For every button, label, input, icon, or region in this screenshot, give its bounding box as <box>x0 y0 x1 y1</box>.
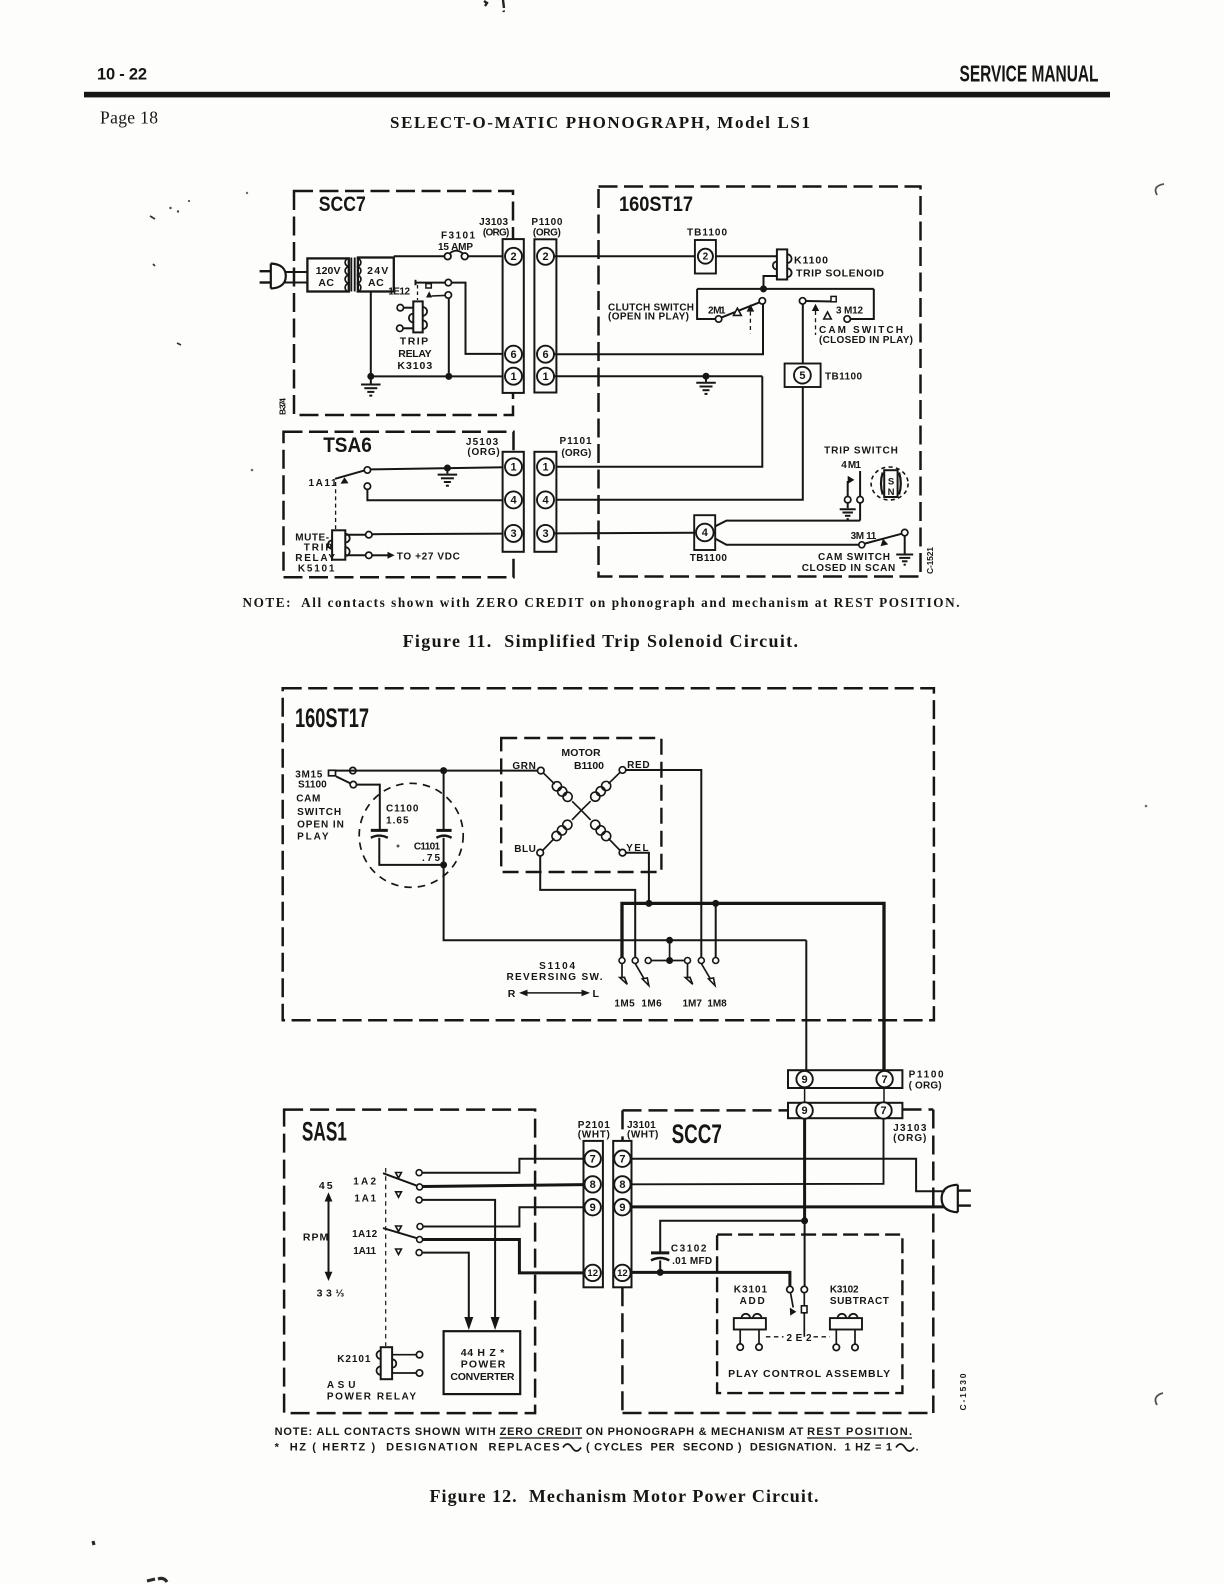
svg-text:POWER: POWER <box>461 1359 506 1371</box>
svg-text:45: 45 <box>319 1180 333 1192</box>
S1104 blade 1M5 <box>621 964 623 978</box>
svg-text:7: 7 <box>590 1153 596 1165</box>
svg-text:TRIP SWITCH: TRIP SWITCH <box>824 446 898 457</box>
wire J3101 pin 12 to 2E2 (thick) <box>631 1272 790 1286</box>
cam switch 3M12 blade <box>799 298 805 304</box>
wire P1100 pin 6 to 2M1 blade <box>554 304 763 354</box>
svg-text:160ST17: 160ST17 <box>295 703 369 733</box>
svg-text:1M7 1M8: 1M7 1M8 <box>683 999 728 1010</box>
J3103 pin 1 <box>505 368 522 385</box>
svg-text:SERVICE MANUAL: SERVICE MANUAL <box>960 61 1099 87</box>
svg-text:2 M1: 2 M1 <box>708 306 726 317</box>
svg-text:NOTE: ALL CONTACTS SHOWN WITH: NOTE: ALL CONTACTS SHOWN WITH <box>275 1426 500 1438</box>
2M1 actuator marks <box>734 308 742 315</box>
svg-text:ON PHONOGRAPH & MECHANISM AT: ON PHONOGRAPH & MECHANISM AT <box>582 1426 807 1438</box>
svg-text:S1100: S1100 <box>298 780 327 791</box>
wire 1A11 upper to J5103 pin 1 <box>371 467 505 469</box>
P2101 pin 9 <box>585 1199 601 1215</box>
svg-text:12: 12 <box>587 1268 598 1279</box>
transformer T1 core <box>350 258 352 292</box>
svg-text:1E12: 1E12 <box>388 287 410 298</box>
transformer T1 secondary winding <box>357 258 361 292</box>
mating stubs <box>804 1087 806 1103</box>
svg-text:S: S <box>888 476 894 487</box>
J3101 pin 7 <box>614 1151 630 1167</box>
wire ground bus to J3103 pin 1 <box>371 375 505 377</box>
svg-text:P1100: P1100 <box>531 217 562 228</box>
P2101 pin 7 <box>585 1151 601 1167</box>
svg-text:REST POSITION.: REST POSITION. <box>807 1426 912 1438</box>
svg-text:7: 7 <box>880 1105 886 1117</box>
ground symbol (TSA6) <box>446 468 448 474</box>
svg-text:TB1100: TB1100 <box>690 553 728 564</box>
connector P1100 (ORG) figure 11 <box>534 239 556 392</box>
svg-text:SCC7: SCC7 <box>672 1119 722 1149</box>
wire 1A1 to power converter (arrow) <box>422 1200 495 1317</box>
wire bus drop to contact 1M8 <box>715 903 717 957</box>
wire 3M15 blade to C1100 <box>357 785 380 830</box>
K2101 contact upper <box>392 1354 416 1356</box>
wire 24V secondary to fuse F3101 <box>394 255 445 257</box>
svg-text:C-1521: C-1521 <box>925 547 935 574</box>
svg-text:1.65: 1.65 <box>386 815 409 826</box>
S1104 blade 1M6 <box>635 964 644 980</box>
P1101 pin 4 <box>537 491 554 508</box>
wire 1A11 lower to J5103 pin 4 <box>367 489 505 500</box>
svg-text:TB1100: TB1100 <box>687 228 727 239</box>
svg-text:24V: 24V <box>367 265 388 277</box>
svg-text:OPEN IN: OPEN IN <box>297 820 344 831</box>
svg-text:( ORG): ( ORG) <box>909 1081 942 1092</box>
J3103h pin 9 <box>796 1102 812 1118</box>
box 160ST17 (figure 12) <box>283 688 934 1020</box>
svg-text:L: L <box>593 988 600 1000</box>
svg-text:8: 8 <box>590 1179 596 1191</box>
svg-text:9: 9 <box>619 1202 625 1214</box>
relay K5101 mute-trip coil <box>332 530 345 559</box>
svg-text:7: 7 <box>882 1074 888 1086</box>
capacitor C1100 1.65 <box>371 829 388 832</box>
terminal block TB1100 terminal 4 <box>694 515 715 550</box>
wire RED to reversing switch contact <box>626 770 702 957</box>
magnet symbol S-N <box>871 467 908 500</box>
svg-text:K1100: K1100 <box>794 255 828 267</box>
svg-text:15 AMP: 15 AMP <box>438 242 473 253</box>
P1100h pin 7 <box>876 1071 892 1087</box>
svg-text:ADD: ADD <box>740 1296 765 1307</box>
connector J3103 (ORG) figure 11 <box>503 239 524 393</box>
J3101 pin 8 <box>614 1176 630 1192</box>
junction dot C1101 bottom <box>440 861 447 868</box>
svg-text:.75: .75 <box>422 853 440 864</box>
svg-text:C3102: C3102 <box>671 1244 707 1255</box>
wire J3101 pin 7 to AC plug upper <box>631 1159 945 1192</box>
svg-text:K3103: K3103 <box>397 360 432 372</box>
svg-text:PLAY CONTROL ASSEMBLY: PLAY CONTROL ASSEMBLY <box>728 1368 890 1380</box>
svg-text:RPM: RPM <box>303 1232 329 1244</box>
motor winding GRN-center <box>543 773 554 784</box>
svg-text:3: 3 <box>542 528 548 540</box>
wire YEL to line bus <box>626 853 649 904</box>
cam switch 3M12 fixed contact <box>844 316 850 322</box>
1E12 actuator dashed link <box>417 285 419 300</box>
relay contact 1E12 <box>415 280 417 285</box>
wire J3101 pin 9 to AC plug lower (thick) <box>631 1205 944 1208</box>
svg-text:B1100: B1100 <box>574 760 604 772</box>
cam switch 3M15 S1100 <box>329 770 336 776</box>
connector P1100 (ORG) horizontal <box>788 1070 902 1088</box>
wire 1E12 to J3103 pin 6 <box>452 283 506 354</box>
svg-text:RELAY: RELAY <box>398 348 431 360</box>
svg-text:NOTE: All contacts shown with: NOTE: All contacts shown with ZERO CREDI… <box>243 595 960 610</box>
svg-text:1: 1 <box>510 371 516 383</box>
P1100 pin 2 <box>537 248 554 265</box>
svg-text:Page 18: Page 18 <box>100 108 158 128</box>
svg-text:P1100: P1100 <box>909 1070 944 1081</box>
svg-text:K3101: K3101 <box>734 1285 768 1296</box>
svg-text:1: 1 <box>510 462 516 474</box>
svg-text:1M5 1M6: 1M5 1M6 <box>614 999 662 1010</box>
transformer T1 primary box 120V AC <box>307 258 348 291</box>
svg-text:5: 5 <box>799 370 805 382</box>
plug prong lower fig12 <box>958 1204 971 1206</box>
44 HZ power converter box <box>444 1331 521 1394</box>
ground symbol (4M1) <box>847 503 849 508</box>
svg-text:4: 4 <box>702 527 709 539</box>
J3101 pin 9 <box>614 1199 630 1215</box>
wire C1100 bottom <box>379 838 440 865</box>
wire P1100 pin 1 ground bus 160ST17 <box>554 375 762 377</box>
svg-text:A S U: A S U <box>327 1380 356 1391</box>
svg-text:4 M1: 4 M1 <box>841 460 861 471</box>
wire 3M15 to motor GRN <box>336 770 538 772</box>
wire P1100 pin 2 to TB1100 terminal 2 <box>554 255 695 257</box>
svg-text:1: 1 <box>542 371 548 383</box>
wire P1101 pin 3 to TB1100 terminal 4 <box>554 532 694 535</box>
P1100 pin 6 <box>537 346 554 363</box>
motor winding RED-center <box>608 772 620 783</box>
svg-text:12: 12 <box>617 1268 628 1279</box>
motor winding BLU-center <box>543 838 555 850</box>
connector J5103 (ORG) <box>503 452 524 552</box>
svg-text:(ORG): (ORG) <box>561 448 591 459</box>
svg-text:CAM: CAM <box>296 794 320 805</box>
svg-text:120V: 120V <box>316 265 341 277</box>
svg-text:SELECT-O-MATIC PHONOGRAPH, Mod: SELECT-O-MATIC PHONOGRAPH, Model LS1 <box>390 113 810 132</box>
svg-text:1A1: 1A1 <box>354 1194 376 1205</box>
wire junction to 2E2 contact <box>804 1221 806 1286</box>
ground symbol (160ST17) <box>705 376 707 382</box>
ground symbol (3M11) <box>896 554 913 556</box>
svg-text:33⅓: 33⅓ <box>317 1288 345 1300</box>
wire fuse to J3103 pin 2 <box>468 255 505 257</box>
AC plug P (120V line) <box>271 264 286 289</box>
svg-text:(ORG): (ORG) <box>483 228 510 239</box>
plug prong lower <box>260 281 271 283</box>
svg-text:(WHT): (WHT) <box>627 1130 658 1141</box>
svg-text:TRIP: TRIP <box>304 542 333 553</box>
J5103 pin 4 <box>505 491 522 508</box>
svg-text:Figure 11. Simplified Trip So: Figure 11. Simplified Trip Solenoid Circ… <box>403 631 798 651</box>
wire clutch/cam switch top bus <box>697 288 874 290</box>
connector P2101 (WHT) <box>584 1141 603 1287</box>
connector J3103 (ORG) horizontal <box>788 1103 902 1118</box>
capacitor C3102 .01 MFD <box>651 1251 669 1254</box>
clutch switch 2M1 fixed contact <box>715 316 721 322</box>
wire capacitor node to reversing switch bus <box>444 865 807 940</box>
svg-text:AC: AC <box>368 277 384 289</box>
junction dot relay-ground bus <box>445 373 452 380</box>
svg-text:(WHT): (WHT) <box>578 1130 610 1141</box>
box SCC7 (figure 12) boundary <box>623 1109 789 1112</box>
svg-text:R: R <box>508 988 516 1000</box>
svg-text:1A11: 1A11 <box>353 1246 376 1257</box>
box SAS1 <box>284 1110 535 1414</box>
box 160ST17 (figure 11) <box>599 187 921 577</box>
svg-text:1A11: 1A11 <box>309 478 337 489</box>
junction dot reversing bus <box>666 937 673 944</box>
svg-text:3 M12: 3 M12 <box>836 306 863 317</box>
relay K3103 coil <box>413 301 422 332</box>
svg-text:AC: AC <box>318 277 334 289</box>
P1101 pin 3 <box>537 525 554 542</box>
junction dot bus to contact <box>712 900 719 907</box>
wire plug to transformer primary upper <box>285 271 308 273</box>
svg-text:RELAY: RELAY <box>295 553 335 564</box>
box TSA6 <box>284 432 514 578</box>
dashed circle around capacitors <box>359 783 463 887</box>
svg-text:2: 2 <box>542 251 548 263</box>
svg-text:SAS1: SAS1 <box>302 1117 347 1147</box>
svg-text:44 H Z *: 44 H Z * <box>461 1347 505 1359</box>
junction dot YEL-bus <box>645 900 652 907</box>
J3103h pin 7 <box>875 1102 891 1118</box>
svg-text:C-1530: C-1530 <box>958 1373 968 1410</box>
3M12 actuator marks <box>812 304 819 311</box>
wire ground bus down to P1101 pin 1 <box>554 376 762 467</box>
motor winding YEL-center <box>608 838 620 850</box>
junction dot ground 160ST17 <box>703 373 710 380</box>
svg-text:C1101: C1101 <box>414 841 441 852</box>
svg-text:9: 9 <box>802 1105 808 1117</box>
svg-text:GRN: GRN <box>512 761 536 772</box>
wire 1A12 lower to P2101 pin 12 (thick) <box>423 1240 585 1273</box>
J3101 pin 12 <box>614 1265 630 1281</box>
clutch switch 2M1 blade <box>722 302 760 317</box>
K3103 terminal lower <box>403 327 413 329</box>
svg-text:6: 6 <box>510 349 516 361</box>
svg-text:SCC7: SCC7 <box>319 193 366 216</box>
J5103 pin 1 <box>505 458 522 475</box>
wire 1A12 upper to P2101 pin 9 <box>423 1207 584 1226</box>
svg-text:J3103: J3103 <box>479 217 508 228</box>
K3103 terminal upper <box>404 307 414 309</box>
wire 3M11 to ground <box>904 536 906 554</box>
svg-text:K5101: K5101 <box>298 564 335 575</box>
svg-text:(ORG): (ORG) <box>533 228 561 239</box>
svg-text:9: 9 <box>802 1074 808 1086</box>
S1104 blade 1M7 <box>687 964 689 978</box>
svg-text:CLOSED IN SCAN: CLOSED IN SCAN <box>802 563 896 574</box>
junction dot C1101 top <box>440 767 447 774</box>
P2101 pin 8 <box>585 1176 601 1192</box>
1E12 moving contact <box>445 292 451 298</box>
svg-text:160ST17: 160ST17 <box>619 193 693 216</box>
svg-text:7: 7 <box>619 1153 625 1165</box>
wire capacitor branch <box>660 1221 804 1252</box>
K5101 terminal lower to +27 VDC <box>345 554 365 556</box>
wire J3103h pin 9 down (thick) <box>803 1118 806 1221</box>
line bus (thick) above reversing switch <box>622 903 884 1070</box>
wire BLU to reversing switch contact <box>540 856 635 957</box>
svg-text:K3102: K3102 <box>830 1285 859 1296</box>
box SCC7 (figure 11) <box>294 191 513 415</box>
4M1 moving blade <box>845 497 851 503</box>
wire TB1100-2 to trip solenoid K1100 <box>716 255 777 257</box>
reversing switch S1104 contacts <box>619 958 625 964</box>
svg-text:( CYCLES PER SECOND ) DESIG: ( CYCLES PER SECOND ) DESIGNATION. 1 HZ … <box>586 1442 892 1454</box>
1A11 actuator dashed link <box>335 482 337 529</box>
P2101 pin 12 <box>585 1265 601 1281</box>
junction dot secondary-ground <box>367 373 374 380</box>
svg-text:Figure 12. Mechanism Motor Po: Figure 12. Mechanism Motor Power Circuit… <box>430 1486 819 1506</box>
svg-text:SWITCH: SWITCH <box>297 807 341 818</box>
K5101 terminal upper to J5103 pin 3 <box>345 534 365 536</box>
J5103 pin 3 <box>505 525 522 542</box>
svg-text:1A12: 1A12 <box>352 1229 378 1240</box>
svg-text:TO +27 VDC: TO +27 VDC <box>397 552 460 563</box>
svg-text:6: 6 <box>542 349 548 361</box>
wire K1100 to switch bus junction <box>764 276 777 289</box>
svg-text:4: 4 <box>510 495 517 507</box>
P1100 pin 1 <box>537 368 554 385</box>
wire J3101 pin 8 to J3103h pin 7 <box>631 1118 884 1184</box>
svg-text:9: 9 <box>590 1202 596 1214</box>
svg-text:(ORG): (ORG) <box>893 1133 926 1144</box>
motor B1100 box <box>501 738 661 872</box>
terminal block TB1100 terminal 5 <box>785 364 821 388</box>
wire 1E12 moving contact to ground bus <box>448 298 450 376</box>
wire bus left drop <box>697 289 715 319</box>
wire reversing bus drop to P1100 pin 9 <box>805 940 807 1070</box>
svg-text:MOTOR: MOTOR <box>561 747 601 759</box>
wire 24V secondary bottom to ground node <box>370 292 372 377</box>
svg-text:CONVERTER: CONVERTER <box>450 1371 515 1383</box>
K2101 contact lower <box>392 1372 416 1374</box>
box PLAY CONTROL ASSEMBLY <box>717 1235 902 1394</box>
SAS1 actuator dashed link <box>385 1168 387 1346</box>
svg-text:S1104: S1104 <box>539 961 575 972</box>
svg-text:2: 2 <box>510 251 516 263</box>
wire TB1100-5 down to P1101 pin 4 <box>554 387 803 500</box>
svg-text:TRIP SOLENOID: TRIP SOLENOID <box>796 268 884 280</box>
svg-text:CAM SWITCH: CAM SWITCH <box>818 552 890 563</box>
svg-text:1: 1 <box>542 462 548 474</box>
wire plug to transformer primary lower <box>285 282 308 284</box>
wire 1A2 upper to P2101 pin 7 <box>422 1159 584 1173</box>
fuse F3101 15 AMP <box>444 253 451 260</box>
plug prong upper fig12 <box>958 1189 971 1191</box>
connector J3101 (WHT) <box>613 1141 631 1287</box>
svg-text:ZERO CREDIT: ZERO CREDIT <box>500 1426 583 1438</box>
svg-text:.01 MFD: .01 MFD <box>672 1256 712 1267</box>
svg-text:P1101: P1101 <box>560 436 592 447</box>
svg-text:.: . <box>916 1442 919 1454</box>
transformer T1 primary winding <box>345 258 349 292</box>
J3103 pin 6 <box>505 346 522 363</box>
junction dot ground TSA6 <box>444 465 451 472</box>
svg-text:(CLOSED IN PLAY): (CLOSED IN PLAY) <box>819 335 913 346</box>
2E2 mechanical dashed link <box>766 1336 784 1338</box>
plug prong upper <box>260 270 271 272</box>
S1104 center tie wire <box>651 960 684 962</box>
transformer T1 secondary box 24V AC <box>358 258 394 292</box>
svg-text:TB1100: TB1100 <box>825 372 862 383</box>
terminal block TB1100 terminal 2 <box>695 240 716 274</box>
svg-text:BLU: BLU <box>514 844 536 855</box>
junction dot C3102 on pin12 wire <box>657 1269 664 1276</box>
scan marks <box>484 0 504 12</box>
wire 1A2 lower to P2101 pin 8 (thick) <box>423 1185 585 1187</box>
svg-text:N: N <box>888 487 895 498</box>
wire TB1100-4 to trip switch 4M1 <box>715 521 860 527</box>
svg-text:10 - 22: 10 - 22 <box>97 66 147 84</box>
wire 3M12 to bus right <box>850 289 873 319</box>
connector P1101 (ORG) <box>534 452 556 552</box>
svg-text:C1100: C1100 <box>386 804 419 815</box>
svg-text:3: 3 <box>510 528 516 540</box>
S1104 blade 1M8 <box>701 964 710 980</box>
svg-text:PLAY: PLAY <box>297 832 329 843</box>
svg-text:TSA6: TSA6 <box>323 434 372 457</box>
svg-text:2: 2 <box>703 252 709 263</box>
junction dot solenoid feed <box>760 285 767 292</box>
svg-text:4: 4 <box>542 495 549 507</box>
capacitor C1101 .75 <box>443 774 445 830</box>
svg-text:(ORG): (ORG) <box>467 447 499 458</box>
wire 3M12 blade to TB1100 terminal 5 <box>802 304 804 363</box>
contact 2E2 <box>787 1286 793 1292</box>
svg-text:SUBTRACT: SUBTRACT <box>830 1296 889 1307</box>
wire 1A11 to power converter (arrow) <box>422 1253 469 1317</box>
J3103 pin 2 <box>505 248 522 265</box>
solenoid K1100 (trip solenoid) <box>777 249 787 279</box>
svg-text:(OPEN IN PLAY): (OPEN IN PLAY) <box>608 312 689 323</box>
svg-text:B-374: B-374 <box>278 398 288 415</box>
svg-text:POWER RELAY: POWER RELAY <box>327 1392 417 1403</box>
header rule <box>84 92 1110 98</box>
svg-text:K2101: K2101 <box>337 1354 371 1365</box>
AC plug (SCC7 line cord) <box>942 1185 958 1213</box>
svg-text:F3101: F3101 <box>441 231 475 242</box>
svg-text:1A2: 1A2 <box>353 1176 376 1187</box>
wire TB1100-4 to cam switch 3M11 <box>715 539 858 545</box>
P1101 pin 1 <box>537 458 554 475</box>
svg-text:TRIP: TRIP <box>400 336 428 348</box>
junction dot pin9-capacitor branch <box>801 1217 808 1224</box>
ground symbol (SCC7 secondary) <box>370 376 372 383</box>
svg-text:8: 8 <box>619 1179 625 1191</box>
svg-text:2 E 2: 2 E 2 <box>787 1333 812 1344</box>
P1100h pin 9 <box>796 1071 812 1087</box>
